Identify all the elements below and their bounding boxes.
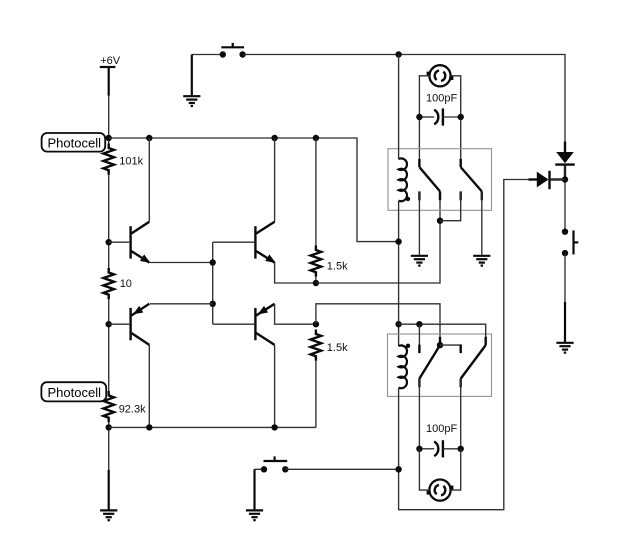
- wire relay1 sw2 stub link: [440, 191, 461, 220]
- node Q3 collector bottom: [146, 424, 152, 430]
- wire thick stem to ground: [108, 470, 110, 510]
- wire Q2 emitter to 1.5k-1 bottom: [275, 263, 316, 283]
- svg-text:1.5k: 1.5k: [327, 342, 348, 354]
- wire thick stem top ground: [191, 55, 193, 97]
- node relay2 sw1 pivot: [437, 342, 443, 348]
- wire coil column top: [398, 55, 400, 160]
- wire rail R10 to 92.3k: [108, 299, 110, 391]
- node relay1 link: [437, 218, 443, 224]
- wire relay2 sw1 open stub: [418, 324, 420, 353]
- wire thick stem right ground: [564, 302, 566, 343]
- wire +6V stub down to photocell node: [108, 67, 110, 96]
- wire cap2 right: [443, 448, 461, 450]
- wire thick stem bottom-mid ground: [253, 469, 255, 510]
- coil2 terminal dot: [406, 344, 410, 348]
- wire rail 101k to R10: [108, 175, 110, 268]
- power +6V supply: [100, 55, 121, 67]
- node relay2 stub tap: [416, 321, 422, 327]
- Photocell label 2: [41, 382, 106, 401]
- node coil1 bottom: [395, 238, 401, 244]
- wire coil column bottom: [399, 180, 537, 510]
- resistor R2 10: [103, 268, 114, 299]
- coil1 terminal dot: [406, 197, 410, 201]
- ground right: [556, 343, 573, 353]
- node Q4 emitter/1.5k-2 top: [313, 321, 319, 327]
- capacitor C2 100pF: [434, 440, 443, 457]
- wire Q4 collector down: [274, 345, 276, 428]
- wire 1.5k-2 bottom column: [315, 361, 317, 428]
- wire motor1 right: [451, 76, 461, 167]
- wire D2 to junction: [550, 179, 566, 181]
- wire 1.5k-1 top column: [315, 138, 317, 246]
- wire motor1 left: [419, 76, 429, 167]
- svg-text:Photocell: Photocell: [48, 135, 102, 150]
- wire relay2 sw2 contact down: [460, 379, 462, 449]
- node 1.5k-1 bottom: [313, 280, 319, 286]
- relay2 box: [388, 334, 492, 396]
- relay1 switch1 blade: [419, 167, 440, 191]
- node Q3 base: [106, 321, 112, 327]
- wire D1 to button: [564, 165, 566, 232]
- wire Q2 collector: [274, 138, 276, 222]
- wire motor2 left: [419, 449, 429, 490]
- relay2 switch1 blade: [419, 345, 440, 379]
- node 1.5k-1 top: [313, 135, 319, 141]
- relay1 switch1 NC stub to ground: [418, 191, 420, 255]
- wire Q1 base: [109, 241, 130, 243]
- node center upper: [210, 259, 216, 265]
- relay2 switch2 pole stub: [485, 337, 487, 345]
- node relay2 coil bottom tap: [395, 466, 401, 472]
- label 100pF top: [426, 92, 457, 104]
- wire top row left of button: [192, 54, 223, 56]
- ground relay1 sw1: [411, 256, 428, 266]
- node relay2 coil top: [395, 321, 401, 327]
- node photocell1 top: [106, 135, 112, 141]
- wire bottom-left row: [109, 426, 316, 428]
- diode D2: [529, 171, 563, 189]
- svg-text:10: 10: [120, 278, 132, 290]
- wire Q2 base: [213, 241, 254, 243]
- inductor L1 relay1 coil: [399, 158, 407, 201]
- diode D1: [555, 142, 574, 180]
- svg-text:92.3k: 92.3k: [119, 403, 146, 415]
- wire button3 down: [564, 253, 566, 302]
- ground relay1 sw2: [473, 256, 490, 266]
- relay1 switch2 pole stub: [460, 159, 462, 167]
- resistor R1 101k: [103, 144, 114, 175]
- relay1 box: [388, 149, 492, 211]
- relay1 switch2 contact to ground: [481, 191, 483, 255]
- node cap2 right: [458, 446, 464, 452]
- node Q4 collector bottom: [271, 424, 277, 430]
- wire motor2 right: [451, 449, 461, 490]
- relay1 switch2 blade: [461, 167, 482, 191]
- transistor Q1: [131, 222, 151, 263]
- wire Q4 base: [213, 323, 254, 325]
- capacitor C1 100pF: [434, 108, 443, 125]
- svg-text:101k: 101k: [119, 155, 143, 167]
- svg-text:Photocell: Photocell: [48, 385, 102, 400]
- wire relay2 sw1 link stub: [440, 345, 461, 353]
- ground bottom-mid: [246, 510, 263, 520]
- ground left-bottom: [100, 510, 117, 520]
- node cap1 left: [416, 114, 422, 120]
- transistor Q4: [255, 304, 274, 345]
- svg-text:100pF: 100pF: [426, 423, 457, 435]
- relay2 switch2 blade: [461, 345, 486, 379]
- wire 1.5k-1 bottom stub: [315, 277, 317, 283]
- pushbutton SW2 bottom: [261, 456, 289, 472]
- node center lower: [210, 301, 216, 307]
- motor M2: [427, 480, 454, 501]
- svg-text:100pF: 100pF: [426, 92, 457, 104]
- wire Q1 collector: [148, 138, 150, 222]
- wire top row right of button: [243, 55, 565, 152]
- wire 92.3k to bottom row: [108, 422, 110, 470]
- ground top: [183, 96, 200, 106]
- node Q1 collector top: [146, 135, 152, 141]
- relay2 switch1 throw stubs: [418, 345, 420, 354]
- wire top bus: [109, 138, 399, 242]
- wire Q4 emitter link: [275, 304, 316, 324]
- motor M1: [427, 65, 454, 86]
- wire center column: [212, 242, 214, 324]
- wire to relay2 sw1 pole: [316, 304, 440, 345]
- pushbutton SW1 top: [220, 43, 246, 58]
- wire Q3 base: [109, 323, 130, 325]
- resistor R3 92.3k: [103, 391, 114, 422]
- relay1 switch1 pole stub: [418, 159, 420, 167]
- transistor Q3: [131, 304, 150, 345]
- resistor R4 1.5k: [311, 246, 322, 277]
- relay2 link stub thick end: [460, 345, 462, 354]
- wire cap1 left: [419, 116, 434, 118]
- wire Q1 emitter row: [150, 262, 213, 264]
- wire 1.5k-1 bottom row to relay1: [316, 191, 440, 283]
- transistor Q2: [255, 222, 275, 263]
- relay1 switch1 throw stubs: [418, 191, 420, 200]
- inductor L2 relay2 coil: [399, 345, 407, 388]
- svg-text:+6V: +6V: [100, 55, 121, 67]
- label 100pF bottom: [426, 423, 457, 435]
- wire button2 right to relay2 coil: [285, 468, 398, 470]
- wire Q3 emitter row: [150, 303, 213, 305]
- node cap2 left: [416, 446, 422, 452]
- node Q2 collector top: [271, 135, 277, 141]
- wire relay2 top row: [399, 324, 486, 345]
- wire Q3 collector down: [148, 345, 150, 428]
- node cap1 right: [458, 114, 464, 120]
- node Q1 base: [106, 239, 112, 245]
- Photocell label 1: [42, 133, 106, 152]
- node top coil tap: [395, 51, 401, 57]
- wire coil column middle: [398, 201, 400, 346]
- wire button2 left: [255, 468, 265, 470]
- wire relay2 sw1 contact down: [418, 379, 420, 449]
- resistor R5 1.5k: [311, 330, 322, 361]
- node photocell2 bottom: [106, 424, 112, 430]
- pushbutton SW3 right: [562, 229, 579, 257]
- relay2 switch1 pole stub: [439, 337, 441, 345]
- relay2 switch2 throw stub: [460, 379, 462, 388]
- svg-text:1.5k: 1.5k: [327, 260, 348, 272]
- wire cap2 left: [419, 448, 434, 450]
- relay1 switch2 throw stubs: [460, 191, 462, 200]
- wire cap1 right: [443, 116, 461, 118]
- node diode junction: [562, 176, 568, 182]
